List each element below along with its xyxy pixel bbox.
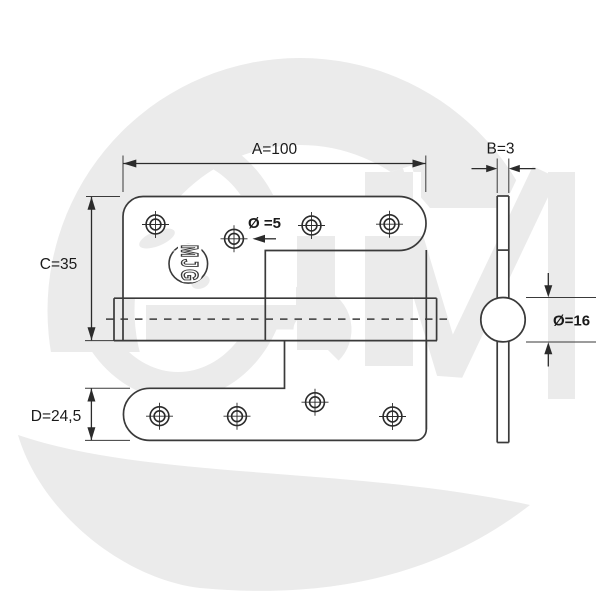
stamp crescent upper-left xyxy=(137,224,178,252)
dim dia16 top arrow xyxy=(547,273,549,287)
ext line B left xyxy=(496,159,498,194)
strip left edge upper xyxy=(496,196,498,298)
white fill of upper leaf xyxy=(123,196,426,298)
dim line C xyxy=(91,197,93,340)
ext line dia16 top xyxy=(526,297,596,299)
hole B3 xyxy=(302,389,329,416)
watermark letter J xyxy=(279,210,337,350)
ext line C bottom xyxy=(85,340,114,342)
pivot ball xyxy=(481,298,525,342)
drawing strokes xyxy=(114,197,437,441)
hole T1 xyxy=(142,211,169,238)
barrel left end xyxy=(113,298,115,340)
ext line dia16 bottom xyxy=(526,341,596,343)
hole T2 xyxy=(221,225,248,252)
ext line B right xyxy=(508,159,510,194)
screw holes bottom row xyxy=(146,389,406,430)
lower leaf outline xyxy=(123,341,426,441)
dim B left arrow xyxy=(472,168,489,170)
upper leaf outline xyxy=(123,197,426,341)
watermark letter G xyxy=(66,132,290,400)
svg-text:Ø=16: Ø=16 xyxy=(553,313,590,330)
side view strip xyxy=(497,196,509,443)
ext line A right xyxy=(425,156,427,193)
svg-text:Ø =5: Ø =5 xyxy=(248,215,281,232)
screw holes top row xyxy=(142,211,403,253)
dim line D xyxy=(90,389,92,441)
watermark M buffer xyxy=(389,172,562,399)
svg-text:MJG: MJG xyxy=(176,245,202,283)
barrel bottom xyxy=(114,340,437,342)
barrel top xyxy=(114,297,437,299)
hole T3 xyxy=(298,212,325,239)
white fill of lower leaf xyxy=(123,366,426,440)
dia5 pointer arrow xyxy=(262,238,276,240)
ext line D bottom xyxy=(85,439,130,441)
strip bottom edge xyxy=(497,442,509,444)
stamp circle xyxy=(169,244,208,283)
leaf right vertical xyxy=(425,250,427,429)
watermark letter M xyxy=(389,172,562,399)
watermark bottom crescent xyxy=(18,435,530,591)
strip left edge lower xyxy=(496,341,498,442)
strip division xyxy=(497,249,509,251)
dim dia16 bottom arrow xyxy=(547,353,549,367)
stamp logo GJM xyxy=(137,224,212,291)
dimension lines with arrows xyxy=(87,160,552,441)
ext line C top xyxy=(86,196,120,198)
ext line D top xyxy=(85,387,130,389)
svg-text:D=24,5: D=24,5 xyxy=(31,408,81,425)
svg-text:B=3: B=3 xyxy=(486,141,514,158)
svg-text:C=35: C=35 xyxy=(40,256,78,273)
stamp crescent lower-right xyxy=(189,272,211,291)
hole B4 xyxy=(379,403,406,430)
white fill of side strip xyxy=(497,196,509,443)
hole B1 xyxy=(146,403,173,430)
thin extension lines xyxy=(85,156,596,441)
strip right edge upper xyxy=(508,196,510,298)
barrel right end xyxy=(436,298,438,340)
hole B2 xyxy=(224,403,251,430)
svg-text:A=100: A=100 xyxy=(252,141,298,158)
strip top edge xyxy=(497,195,509,197)
strip right edge lower xyxy=(508,341,510,442)
dim line A xyxy=(123,163,425,165)
watermark J buffer xyxy=(279,210,337,350)
dashed centerline xyxy=(106,318,447,320)
dim B right arrow xyxy=(518,168,536,170)
hole T4 xyxy=(376,211,403,238)
watermark ring gap right of M centre xyxy=(429,208,552,352)
ext line A left xyxy=(122,156,124,193)
